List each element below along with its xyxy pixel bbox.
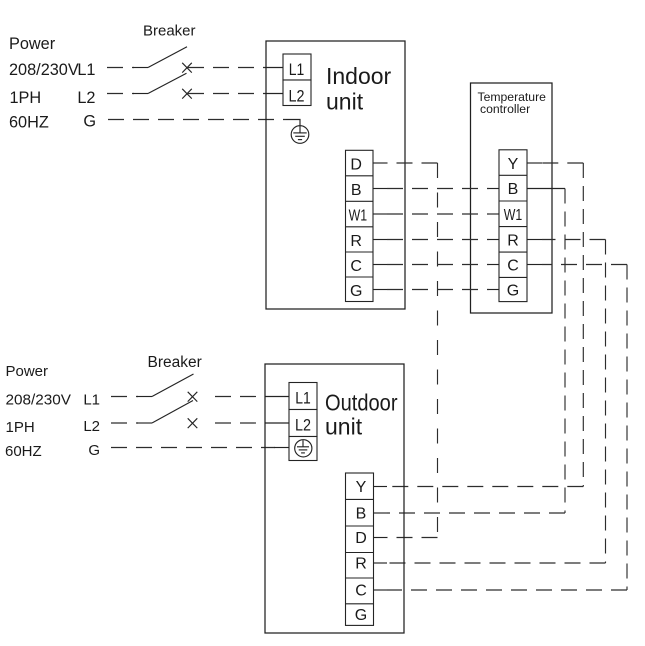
svg-text:60HZ: 60HZ xyxy=(9,113,49,131)
wire net R indoor R to controller R xyxy=(373,239,499,241)
svg-text:Y: Y xyxy=(356,479,367,496)
terminal W1 (controller) xyxy=(499,207,527,226)
wire net Y controller Y to outdoor Y xyxy=(374,163,584,487)
SECTION: bottom power labels xyxy=(5,363,100,460)
svg-text:Y: Y xyxy=(508,156,519,173)
svg-text:W1: W1 xyxy=(349,207,368,224)
terminal L1 (indoor) xyxy=(283,54,311,80)
svg-text:L1: L1 xyxy=(289,60,305,79)
terminal L1 (outdoor) xyxy=(289,383,317,410)
wire L2 supply to breaker (indoor) xyxy=(107,93,134,95)
SECTION: top power labels xyxy=(9,35,96,132)
terminal C (outdoor) xyxy=(346,582,374,603)
svg-text:G: G xyxy=(83,113,96,131)
svg-text:L1: L1 xyxy=(83,391,100,408)
label Temperature controller xyxy=(478,90,547,116)
svg-text:1PH: 1PH xyxy=(10,89,42,107)
terminal strip outdoor outer xyxy=(346,473,374,625)
terminal W1 (indoor) xyxy=(346,207,374,226)
wire breaker L1 to indoor terminal L1 xyxy=(188,67,283,69)
wire net C indoor C to controller C xyxy=(373,264,499,266)
svg-text:1PH: 1PH xyxy=(6,419,35,436)
terminal Y (controller) xyxy=(499,156,527,175)
svg-text:D: D xyxy=(355,530,367,547)
svg-text:Breaker: Breaker xyxy=(148,354,202,371)
svg-text:controller: controller xyxy=(480,102,530,116)
terminal L2 (outdoor) xyxy=(289,410,317,437)
terminal R (controller) xyxy=(499,233,527,252)
SECTION: temperature controller xyxy=(471,83,553,313)
temperature controller box xyxy=(471,83,553,313)
wire L1 supply to breaker (indoor) xyxy=(107,67,134,69)
svg-text:B: B xyxy=(351,182,362,199)
svg-text:C: C xyxy=(507,258,519,275)
svg-text:60HZ: 60HZ xyxy=(5,443,42,460)
SECTION: outdoor unit xyxy=(265,364,404,633)
svg-text:Power: Power xyxy=(9,35,56,53)
terminal strip indoor outer xyxy=(346,150,374,301)
svg-text:Outdoor: Outdoor xyxy=(325,390,398,416)
svg-text:C: C xyxy=(350,258,362,275)
SECTION: indoor unit xyxy=(266,41,405,309)
ground earth terminal (outdoor) xyxy=(289,437,317,461)
svg-text:G: G xyxy=(507,283,519,300)
wire G supply to indoor earth xyxy=(108,120,300,126)
wire net W1 indoor W1 to controller W1 xyxy=(373,213,499,215)
terminal B (outdoor) xyxy=(346,505,374,526)
indoor unit enclosure box xyxy=(266,41,405,309)
svg-text:R: R xyxy=(355,555,367,572)
svg-text:L1: L1 xyxy=(295,389,311,408)
terminal D (indoor) xyxy=(346,156,374,175)
breaker pole L1 (indoor) xyxy=(133,47,192,73)
breaker pole L2 (indoor) xyxy=(133,73,192,98)
svg-text:L2: L2 xyxy=(295,416,311,435)
wire net D indoor D to outdoor D xyxy=(373,163,438,538)
wire breaker L1 to outdoor terminal L1 xyxy=(215,396,289,398)
breaker pole L2 (outdoor) xyxy=(137,401,197,429)
terminal B (controller) xyxy=(499,181,527,201)
terminal L2 (indoor) xyxy=(283,80,311,106)
svg-text:208/230V: 208/230V xyxy=(9,61,79,79)
wire net C2 controller C to outdoor C xyxy=(374,265,628,591)
wire G supply to outdoor earth xyxy=(111,447,289,449)
SECTION: top breaker xyxy=(107,22,300,126)
svg-text:unit: unit xyxy=(325,414,363,440)
terminal B (indoor) xyxy=(346,182,374,201)
svg-text:C: C xyxy=(355,582,367,599)
terminal Y (outdoor) xyxy=(346,479,374,500)
svg-text:Indoor: Indoor xyxy=(326,63,392,89)
terminal strip controller outer xyxy=(499,150,527,302)
svg-text:L2: L2 xyxy=(289,86,305,105)
svg-text:R: R xyxy=(350,233,362,250)
svg-text:R: R xyxy=(507,233,519,250)
svg-text:208/230V: 208/230V xyxy=(6,391,72,408)
wire net B indoor B to controller B xyxy=(373,188,499,190)
terminal C (controller) xyxy=(499,258,527,278)
terminal R (outdoor) xyxy=(346,555,374,578)
svg-text:G: G xyxy=(355,607,367,624)
svg-text:L1: L1 xyxy=(77,61,95,79)
terminal D (outdoor) xyxy=(346,530,374,553)
svg-text:G: G xyxy=(350,283,362,300)
svg-text:L2: L2 xyxy=(83,418,100,435)
label Outdoor unit xyxy=(325,390,398,440)
svg-text:unit: unit xyxy=(326,89,364,115)
wire breaker L2 to outdoor terminal L2 xyxy=(215,422,289,424)
SECTION: field wiring nets xyxy=(373,163,627,590)
SECTION: bottom breaker xyxy=(111,354,289,448)
svg-text:L2: L2 xyxy=(77,89,95,107)
wire L2 supply to breaker (outdoor) xyxy=(111,422,138,424)
svg-text:Power: Power xyxy=(6,363,49,380)
svg-text:Breaker: Breaker xyxy=(143,22,196,39)
wire net R2 controller R to outdoor R xyxy=(374,240,606,564)
ground earth symbol (indoor) xyxy=(291,126,309,144)
wire L1 supply to breaker (outdoor) xyxy=(111,396,138,398)
svg-text:B: B xyxy=(508,181,519,198)
svg-text:G: G xyxy=(88,442,100,459)
outdoor unit enclosure box xyxy=(265,364,404,633)
wire net B2 controller B to outdoor B xyxy=(374,189,566,514)
svg-text:D: D xyxy=(350,156,362,173)
svg-text:B: B xyxy=(356,505,367,522)
wire breaker L2 to indoor terminal L2 xyxy=(188,93,283,95)
terminal R (indoor) xyxy=(346,233,374,252)
terminal C (indoor) xyxy=(346,258,374,277)
label Indoor unit xyxy=(326,63,392,115)
wire net G indoor G to controller G xyxy=(373,289,499,291)
breaker pole L1 (outdoor) xyxy=(137,374,197,402)
svg-text:W1: W1 xyxy=(504,207,523,224)
